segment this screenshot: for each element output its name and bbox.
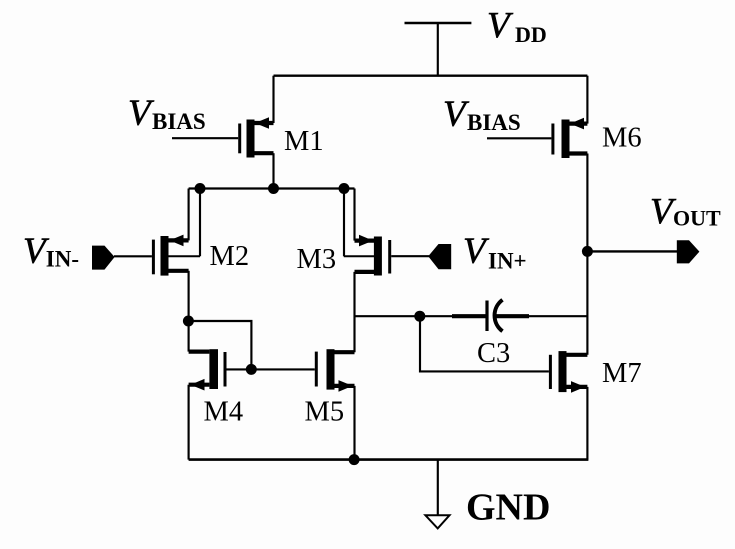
svg-text:M5: M5 <box>305 397 345 428</box>
svg-text:M1: M1 <box>284 126 324 157</box>
svg-text:M2: M2 <box>210 241 250 272</box>
svg-text:BIAS: BIAS <box>152 109 206 134</box>
svg-text:IN-: IN- <box>46 247 79 272</box>
svg-text:M3: M3 <box>297 244 337 275</box>
svg-text:M7: M7 <box>602 358 642 389</box>
svg-text:M4: M4 <box>204 397 244 428</box>
svg-text:IN+: IN+ <box>488 249 527 274</box>
svg-text:M6: M6 <box>602 123 642 154</box>
svg-text:GND: GND <box>466 487 550 529</box>
svg-text:DD: DD <box>515 22 547 47</box>
svg-text:C3: C3 <box>477 338 510 369</box>
svg-text:BIAS: BIAS <box>467 110 521 135</box>
svg-text:OUT: OUT <box>673 206 721 231</box>
